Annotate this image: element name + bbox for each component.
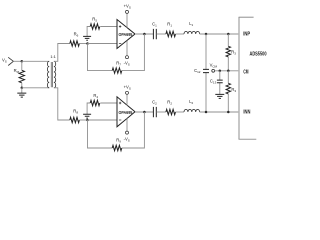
wire U1 output [135, 33, 153, 35]
wire feedback U1 [88, 34, 145, 71]
wire C1 to R1 [156, 33, 166, 35]
power -VS U2 [126, 118, 128, 131]
wire R8 to inverting node [79, 119, 87, 121]
node junction RM/primary bottom [21, 87, 24, 90]
ground at R5 [83, 36, 91, 40]
wire Vs to RM node [13, 60, 21, 62]
svg-text:CM: CM [243, 70, 248, 76]
svg-text:OPA695: OPA695 [119, 32, 133, 37]
resistor R5 [87, 27, 90, 37]
resistor R3 top [227, 34, 229, 71]
power -VS U1 [126, 41, 128, 56]
wire L2 to INN [200, 111, 239, 113]
inductor L1 [184, 31, 200, 34]
node VCM/R3 junction [227, 70, 230, 73]
wire L1 to INP [200, 33, 239, 35]
wire feedback U2 [88, 112, 145, 148]
wire VCM to CM pin [215, 70, 239, 72]
node U1 inverting input junction [86, 42, 89, 45]
wire R2 to L2 [176, 111, 185, 113]
node U1 output junction [143, 33, 146, 36]
resistor R6 [70, 41, 80, 46]
node INN/R3 junction [227, 111, 230, 114]
svg-text:ADS5500: ADS5500 [250, 51, 267, 57]
node INP/C12 junction [205, 33, 208, 36]
wire secondary bottom to R8 row [54, 88, 70, 120]
capacitor C1 [153, 29, 156, 39]
svg-text:INP: INP [243, 31, 250, 37]
ground at C13 [215, 94, 224, 98]
node VCM/C13 junction [219, 70, 222, 73]
resistor R3 bottom [227, 71, 229, 112]
wire U2 output [135, 111, 153, 113]
svg-text:OPA695: OPA695 [119, 110, 133, 115]
resistor RM [21, 61, 23, 70]
node VCM terminal [212, 69, 215, 72]
node INN/C12 junction [205, 111, 208, 114]
inductor L2 [184, 109, 200, 112]
resistor R9 [112, 145, 122, 150]
wire R4 to U2 plus input [100, 102, 117, 104]
op-amp U2 OPA695 [117, 97, 135, 127]
node junction Vs/RM [21, 60, 24, 63]
node INP/R3 junction [227, 33, 230, 36]
wire C2 to R2 [156, 111, 166, 113]
wire secondary top to R6 row [54, 44, 70, 62]
wire R5 to U1 plus input [100, 26, 117, 28]
node U2 inverting input junction [86, 119, 89, 122]
capacitor C12 differential [205, 34, 207, 112]
svg-text:INN: INN [243, 110, 250, 116]
node U2 output junction [143, 111, 146, 114]
power +VS U2 [126, 94, 128, 105]
wire R1 to L1 [176, 33, 185, 35]
resistor R7 [112, 68, 122, 73]
op-amp U1 OPA695 [117, 20, 135, 49]
wire R6 to inverting node [79, 43, 87, 45]
power +VS U1 [126, 14, 128, 28]
capacitor C13 [219, 71, 221, 95]
capacitor C2 [153, 107, 156, 117]
resistor R2 [166, 109, 176, 114]
transformer T1 1:1 [47, 61, 55, 88]
ground at RM [21, 88, 23, 93]
resistor R4 [87, 103, 90, 114]
wire node to U1 minus input [88, 43, 118, 45]
wire RM node to transformer primary top [22, 60, 49, 62]
wire node to U2 minus input [88, 119, 118, 121]
svg-text:1:1: 1:1 [50, 54, 56, 59]
ground at R4 [83, 114, 91, 118]
wire primary bottom [22, 87, 49, 89]
resistor R8 [70, 117, 80, 122]
node Vs input terminal [8, 57, 13, 65]
ADC U3 ADS5500 [238, 17, 240, 139]
resistor R1 [166, 31, 176, 36]
